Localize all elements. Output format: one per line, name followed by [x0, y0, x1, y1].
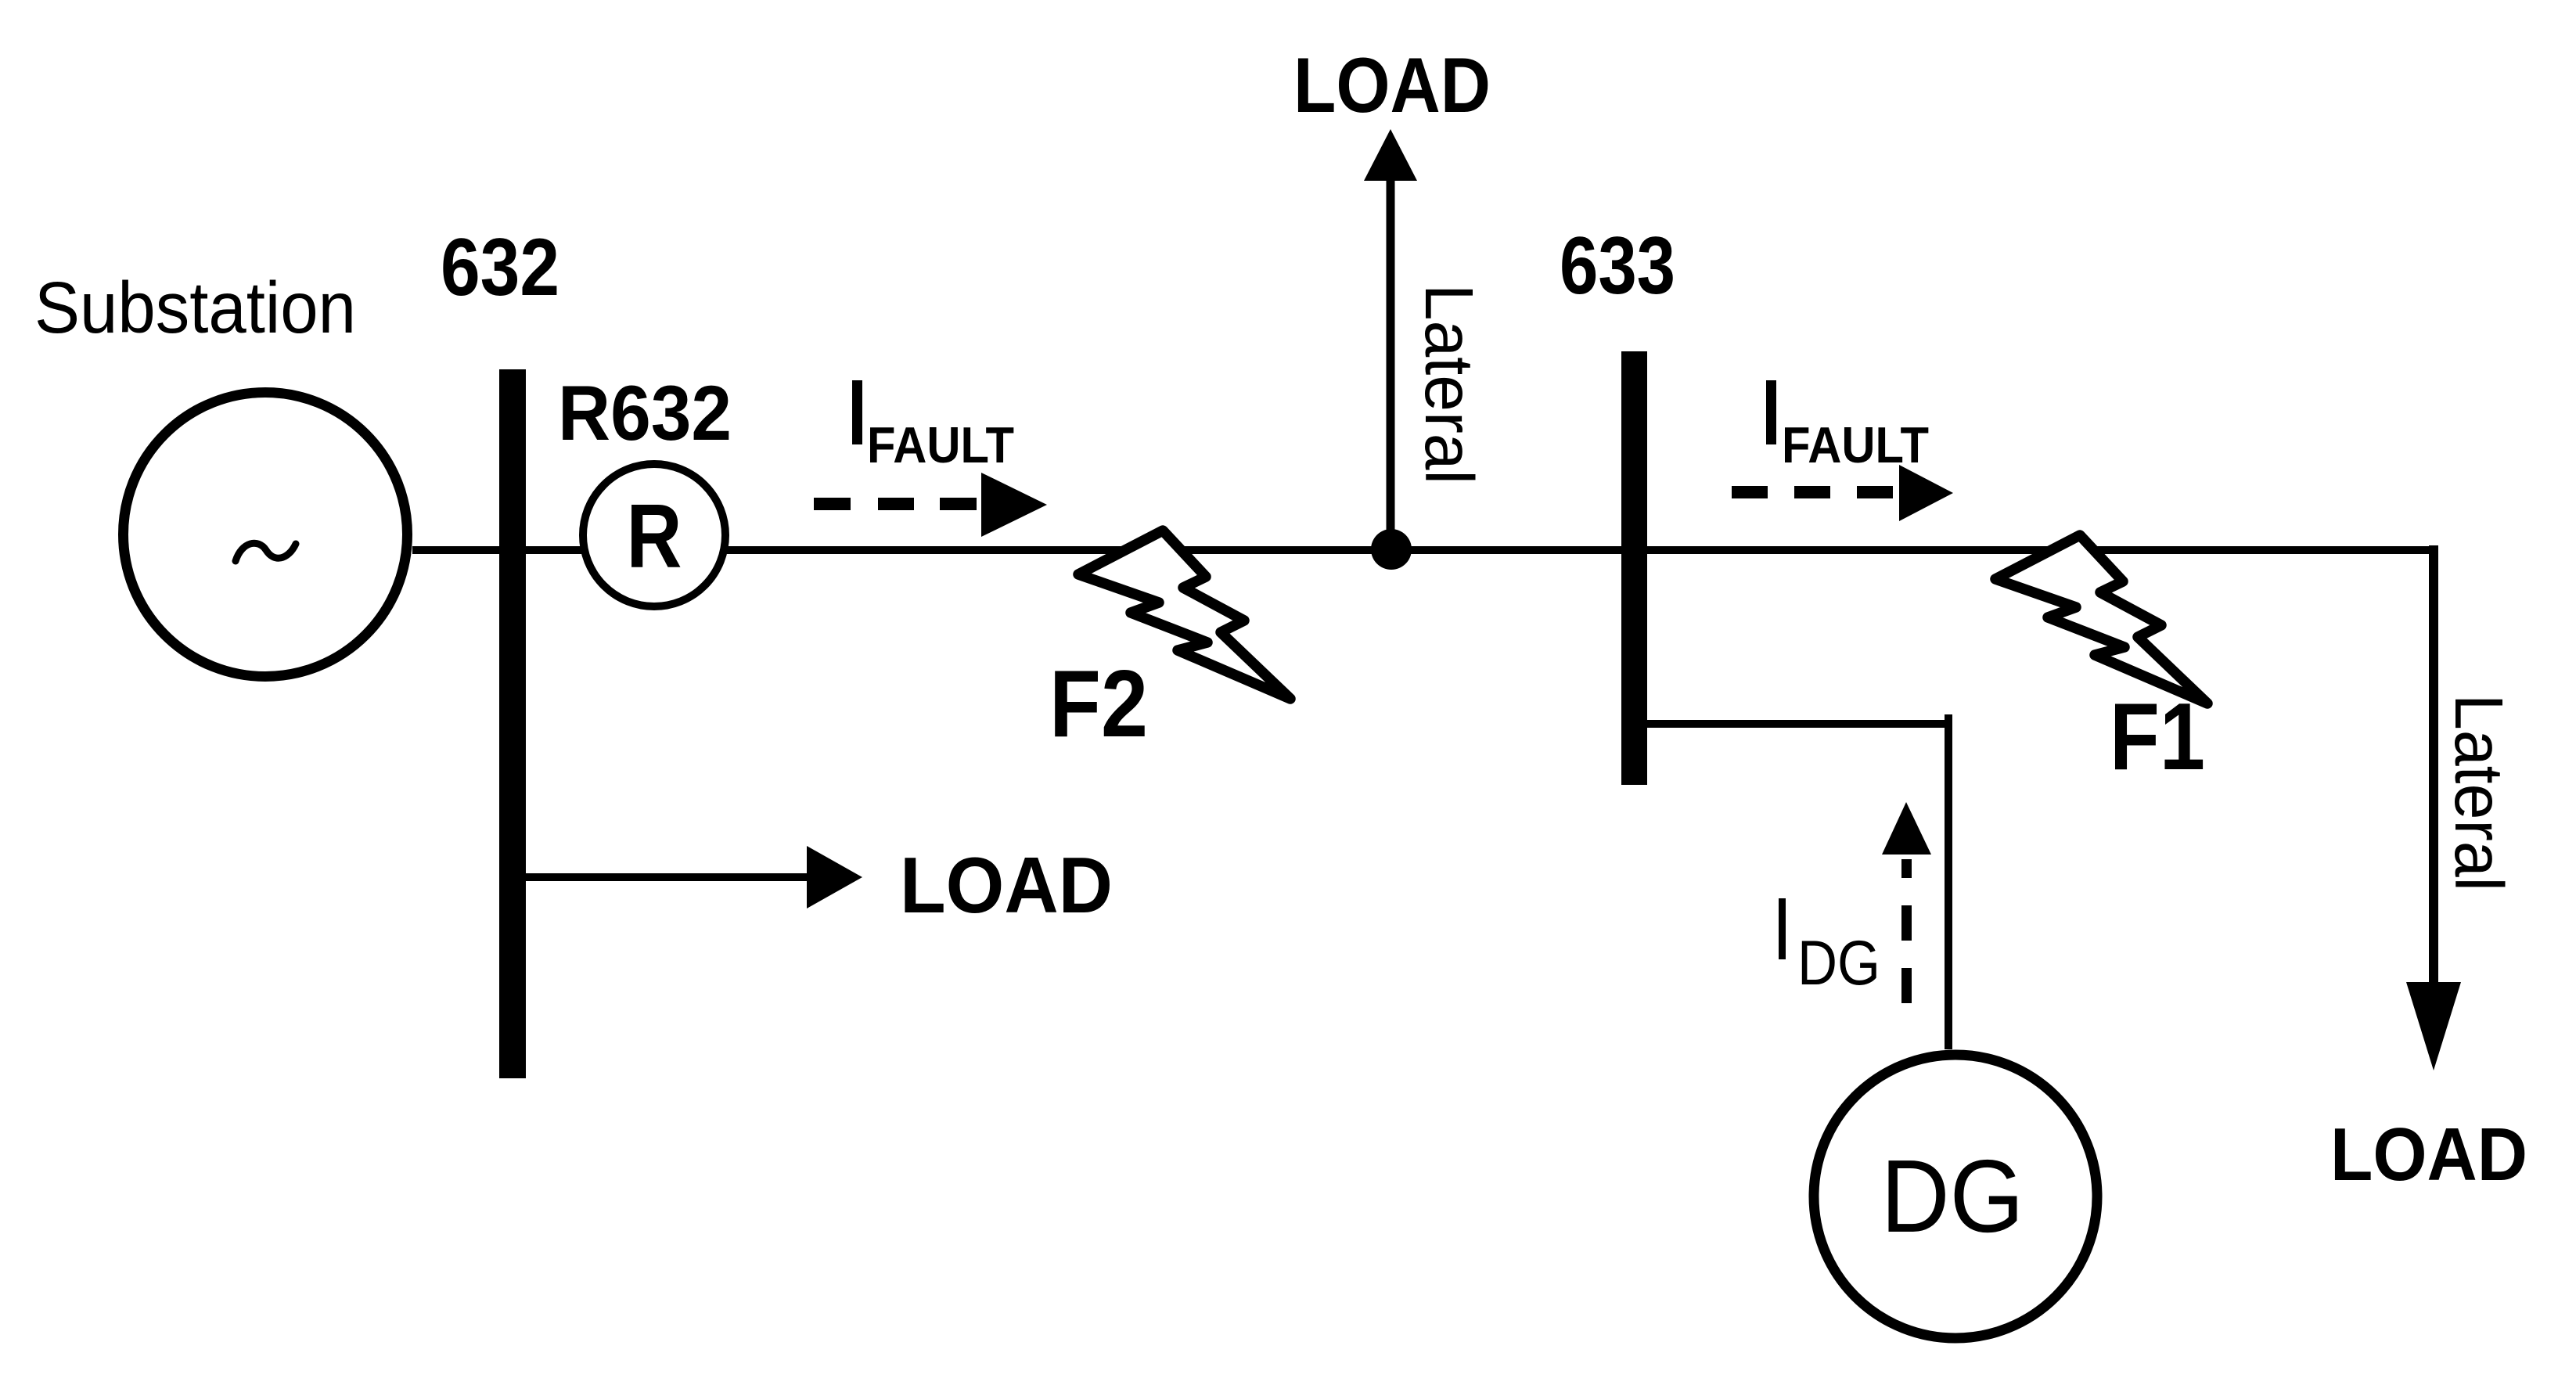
node junction dot on feeder — [1371, 529, 1412, 570]
label I FAULT right : I symbol — [1766, 380, 1776, 444]
fault F1 lightning bolt — [1995, 535, 2207, 703]
svg-text:LOAD: LOAD — [2330, 1113, 2527, 1196]
DG current dashed arrow : arrowhead up — [1882, 802, 1931, 855]
fault F2 lightning bolt — [1078, 531, 1290, 699]
recloser R632 circle — [583, 464, 725, 606]
svg-text:Lateral: Lateral — [2441, 694, 2517, 891]
svg-text:F1: F1 — [2110, 683, 2205, 790]
substation AC tilde symbol — [236, 543, 296, 561]
wire main feeder line from substation to right corner — [412, 546, 2438, 554]
fault current dashed arrow right : dashes — [1732, 486, 1893, 498]
fault current dashed arrow left : arrowhead — [981, 473, 1047, 537]
DG current dashed arrow : dashes — [1901, 859, 1912, 1003]
bus 632 — [499, 369, 526, 1078]
substation source circle — [124, 393, 408, 677]
wire DG branch from bus 633 — [1647, 720, 1952, 728]
DG generator circle — [1814, 1055, 2097, 1338]
fault current dashed arrow right : arrowhead — [1899, 465, 1953, 521]
svg-text:632: 632 — [441, 222, 559, 313]
svg-text:FAULT: FAULT — [1782, 416, 1929, 473]
load arrow from bus 632 : line — [526, 873, 810, 881]
svg-text:DG: DG — [1797, 928, 1880, 998]
lateral up arrowhead — [1364, 129, 1417, 181]
svg-text:633: 633 — [1560, 221, 1675, 311]
wire lateral up from junction — [1387, 180, 1395, 549]
bus 633 — [1621, 351, 1647, 785]
right lateral arrowhead down — [2406, 982, 2461, 1070]
svg-text:R632: R632 — [558, 369, 732, 456]
svg-text:LOAD: LOAD — [900, 842, 1113, 930]
svg-text:Substation: Substation — [34, 267, 356, 348]
svg-text:Lateral: Lateral — [1411, 284, 1487, 484]
svg-text:FAULT: FAULT — [867, 416, 1014, 473]
svg-text:F2: F2 — [1049, 650, 1148, 757]
svg-text:LOAD: LOAD — [1293, 41, 1491, 128]
svg-text:R: R — [627, 485, 682, 587]
fault current dashed arrow left : dashes — [814, 498, 977, 510]
load arrow from bus 632 : arrowhead — [807, 846, 862, 908]
wire right lateral down segment — [2429, 545, 2438, 984]
svg-text:DG: DG — [1881, 1139, 2024, 1254]
label I DG : I symbol — [1779, 898, 1786, 959]
label I FAULT left : I symbol — [852, 380, 862, 444]
